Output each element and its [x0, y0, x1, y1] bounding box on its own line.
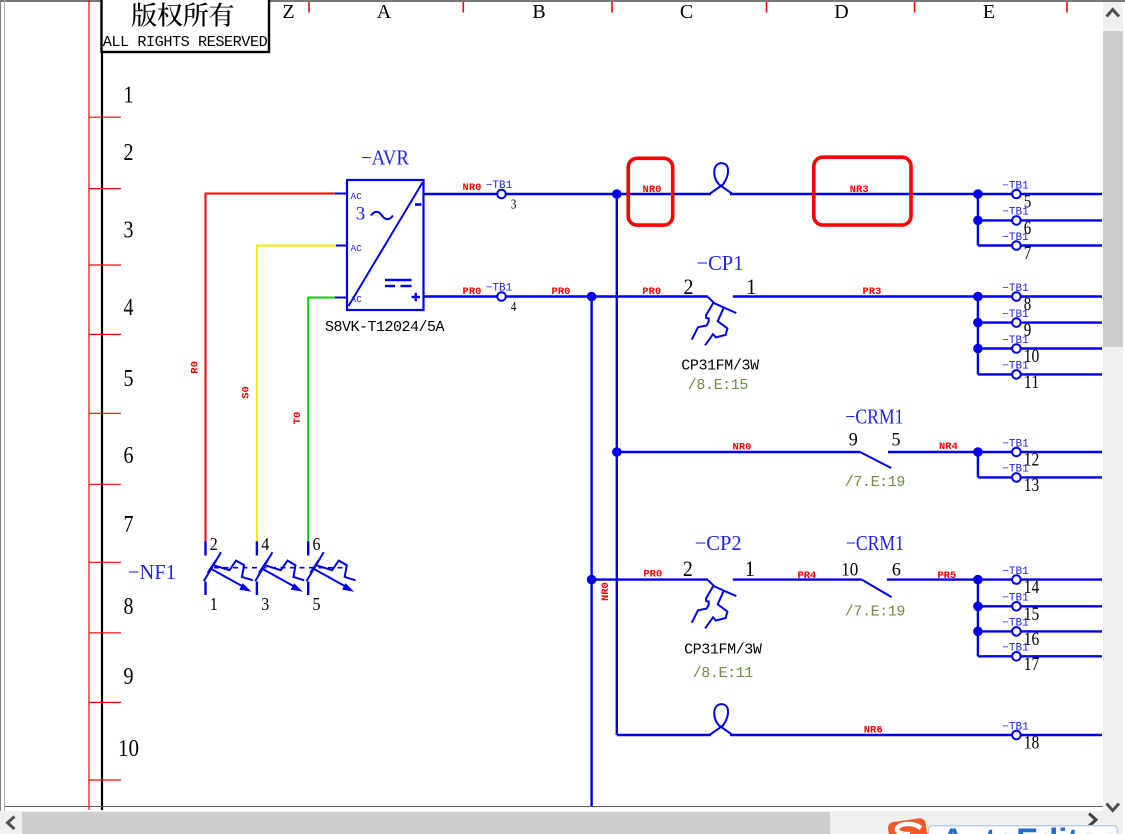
- svg-text:AutoEditor: AutoEditor: [941, 822, 1112, 834]
